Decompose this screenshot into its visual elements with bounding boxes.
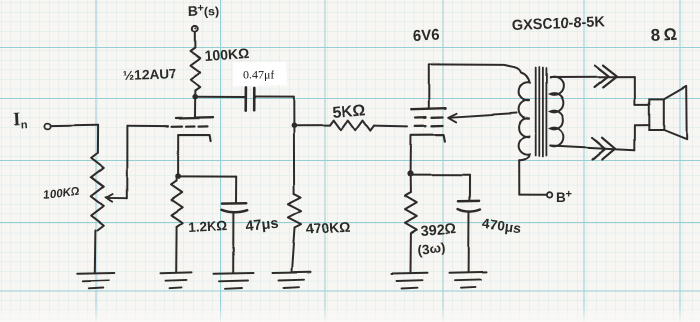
wire secondary bottom to speaker: [550, 146, 635, 150]
transformer T1 primary winding: [515, 67, 530, 161]
ground under 392: [392, 272, 428, 275]
triode U1 half 12AU7 : plate lead: [194, 97, 196, 117]
capacitor 47uf cathode bypass : plates: [222, 202, 246, 205]
svg-text:1.2KΩ: 1.2KΩ: [187, 218, 227, 235]
wire K2 to 470uf cap: [411, 174, 471, 176]
capacitor 470uf plates: [458, 200, 479, 203]
svg-text:(3ω): (3ω): [417, 240, 446, 258]
svg-text:½12AU7: ½12AU7: [123, 66, 177, 83]
transformer core lines: [535, 68, 537, 156]
svg-text:(s): (s): [204, 4, 220, 19]
junction cathode node K1: [175, 173, 181, 179]
resistor 1.2K cathode: [176, 176, 178, 181]
wire 5K to 6V6 grid: [374, 125, 408, 128]
6V6 plate bar: [411, 108, 445, 109]
wire 470uf to ground: [468, 213, 470, 273]
wire In terminal to pot top: [51, 124, 98, 127]
screen tap arrow to 6V6: [449, 113, 517, 117]
wire primary bottom to B+: [518, 161, 520, 195]
ground under 470K: [273, 271, 311, 274]
wire B+ terminal to R plate: [194, 32, 196, 48]
potentiometer R 100K (volume): [91, 153, 104, 230]
6V6 control grid dashes: [415, 125, 426, 128]
12AU7 grid dashes: [172, 125, 183, 127]
12AU7 plate bar: [176, 116, 213, 119]
arrows top (phase): [595, 65, 609, 87]
wire node A to 5K: [294, 125, 330, 127]
ground under 470uf: [450, 271, 487, 274]
node B+ terminal: [547, 192, 552, 197]
resistor 470K grid leak: [288, 194, 301, 228]
wire plate node to coupling cap: [195, 96, 244, 98]
12AU7 cathode: [178, 135, 210, 141]
svg-text:6V6: 6V6: [413, 27, 440, 45]
resistor 392 ohm cathode: [410, 173, 412, 192]
node B+(s) supply terminal: [192, 26, 198, 32]
wire secondary top to speaker: [550, 76, 635, 78]
white label box 0.47uf: [233, 62, 287, 86]
svg-text:B: B: [556, 190, 566, 205]
ground under pot: [77, 272, 114, 275]
wire 6V6 cathode down: [410, 135, 412, 171]
node In input terminal: [45, 123, 51, 129]
wire cathode down to node K1: [177, 135, 179, 174]
wire pot bottom to ground: [94, 230, 97, 273]
junction cathode node K2: [407, 170, 413, 176]
svg-text:n: n: [21, 119, 29, 131]
svg-text:8 Ω: 8 Ω: [650, 25, 677, 45]
ground under 1.2K: [161, 271, 192, 274]
ground under bypass cap: [214, 272, 254, 275]
capacitor C coupling 0.47uf plates: [244, 87, 247, 110]
pentode V2 6V6 plate lead: [428, 64, 430, 108]
speaker SP1: [649, 99, 664, 130]
6V6 screen grid dashes: [416, 116, 426, 119]
6V6 cathode: [412, 135, 445, 142]
svg-text:0.47μf: 0.47μf: [243, 68, 274, 82]
pot wiper arrow: [106, 194, 113, 202]
wire node A down to 470K: [293, 126, 295, 195]
resistor 5K grid stopper: [330, 121, 374, 131]
svg-text:392Ω: 392Ω: [420, 222, 457, 240]
resistor 100K plate load: [191, 48, 201, 91]
wire K1 to bypass cap: [178, 175, 236, 177]
wire 6V6 plate to transformer primary: [429, 64, 515, 67]
wire resistor to plate node: [194, 91, 196, 97]
svg-text:GXSC10-8-5K: GXSC10-8-5K: [512, 15, 607, 34]
wire bypass cap to ground: [232, 213, 234, 273]
arrows bottom (phase): [593, 138, 606, 160]
junction plate node: [192, 94, 198, 100]
transformer T1 secondary winding: [550, 77, 563, 147]
svg-text:470KΩ: 470KΩ: [305, 219, 350, 237]
svg-text:100KΩ: 100KΩ: [204, 45, 250, 64]
svg-text:+: +: [566, 189, 572, 201]
wire coupling cap to node A: [254, 96, 293, 98]
junction node A: [291, 123, 297, 129]
svg-text:5KΩ: 5KΩ: [332, 102, 367, 122]
wire wiper to 12AU7 grid: [126, 126, 128, 198]
